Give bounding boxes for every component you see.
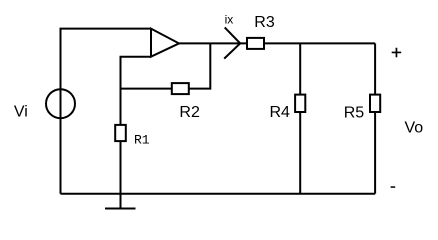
resistor R2 xyxy=(172,83,189,94)
svg-text:R2: R2 xyxy=(179,104,200,121)
current arrow ix xyxy=(224,27,240,58)
wire: op-amp output to top-right corner (through ix arrow and R3) xyxy=(179,42,375,44)
svg-text:R1: R1 xyxy=(134,132,150,147)
resistor R3 xyxy=(247,38,264,49)
svg-text:ix: ix xyxy=(225,13,234,27)
wire: R4 branch from top wire down to bottom rail xyxy=(299,43,301,193)
resistor R1 xyxy=(115,125,126,141)
wire: feedback branch through R2 up to output node xyxy=(121,43,211,88)
label + (positive output terminal) xyxy=(392,48,402,58)
wire: non-inverting input loop (top wire from op-amp + input, left side down to bottom rail) xyxy=(61,29,152,194)
resistor R5 xyxy=(370,95,380,112)
op-amp U1 xyxy=(151,29,179,57)
svg-text:R3: R3 xyxy=(254,14,275,31)
svg-text:R4: R4 xyxy=(270,104,291,121)
voltage source Vi xyxy=(46,89,75,118)
wire: right branch through R5 down to bottom rail xyxy=(374,43,376,193)
svg-text:Vo: Vo xyxy=(405,120,424,137)
ground xyxy=(105,208,136,210)
wire: bottom rail xyxy=(61,193,376,195)
resistor R4 xyxy=(295,95,305,112)
wire: inverting input left and down through R1 to ground stub xyxy=(121,57,152,209)
label - (negative output terminal) xyxy=(391,186,396,188)
svg-text:R5: R5 xyxy=(344,104,365,121)
svg-text:Vi: Vi xyxy=(14,104,28,121)
